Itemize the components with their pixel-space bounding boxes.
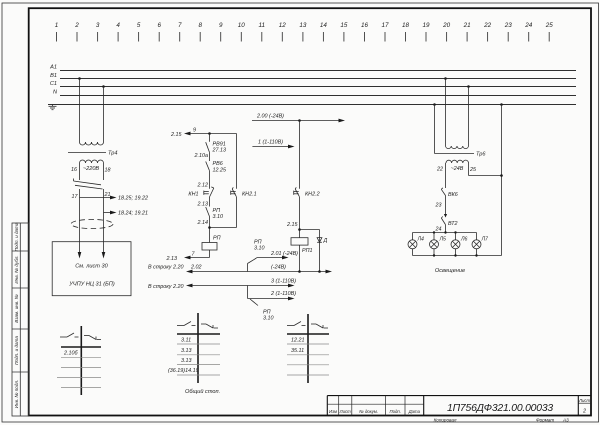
svg-text:Л6: Л6 xyxy=(460,237,468,243)
junction return L6 xyxy=(454,254,456,256)
contact RV6 12.25 xyxy=(206,161,227,174)
svg-text:Подп.: Подп. xyxy=(389,409,400,414)
wire C1 to Tr6 primary right xyxy=(468,87,470,147)
junction node on 2.00 rail xyxy=(298,119,301,122)
svg-text:Общий стоп.: Общий стоп. xyxy=(185,388,220,395)
parallel branch wire KN2.1 upper xyxy=(236,134,238,189)
ladder 2 rung xyxy=(177,374,220,376)
svg-text:(-24В): (-24В) xyxy=(271,265,286,271)
transformer Tr4 secondary winding xyxy=(80,160,104,163)
bus C1 xyxy=(50,81,576,87)
svg-text:16: 16 xyxy=(71,167,77,173)
svg-text:2.10б: 2.10б xyxy=(63,351,78,357)
svg-text:22: 22 xyxy=(483,22,492,29)
svg-text:3.11: 3.11 xyxy=(181,337,191,343)
ladder 1 rungs xyxy=(57,358,101,388)
svg-text:18.25; 19.22: 18.25; 19.22 xyxy=(118,195,148,201)
svg-text:24: 24 xyxy=(435,227,442,233)
svg-text:2.14: 2.14 xyxy=(197,220,209,226)
svg-text:18: 18 xyxy=(105,168,111,174)
ladder 2 rung xyxy=(177,343,220,345)
ground xyxy=(49,104,57,110)
svg-text:2.12: 2.12 xyxy=(197,183,209,189)
junction C1/Tr6 xyxy=(467,85,470,88)
svg-text:9: 9 xyxy=(193,128,196,134)
contact legend make (ladder 1) xyxy=(60,333,79,337)
junction PE/lamp return xyxy=(500,103,503,106)
parallel branch wire lower xyxy=(236,197,238,228)
svg-text:3.10: 3.10 xyxy=(213,214,224,220)
wire RP1 to -24V rail xyxy=(299,245,301,271)
svg-text:Инв. № дубл.: Инв. № дубл. xyxy=(14,255,19,283)
svg-text:Дата: Дата xyxy=(408,409,421,414)
svg-text:10: 10 xyxy=(238,22,246,29)
svg-text:21: 21 xyxy=(463,22,471,29)
svg-text:2.15: 2.15 xyxy=(170,132,182,138)
wire to lamp bus xyxy=(445,225,447,233)
ladder 1 top rung xyxy=(61,346,101,348)
arrow into box right xyxy=(102,242,106,259)
junction return L7 xyxy=(475,254,477,256)
arrow into box left xyxy=(78,242,82,259)
svg-text:35.11: 35.11 xyxy=(291,348,304,354)
svg-text:23: 23 xyxy=(435,203,442,209)
net 3 (1-110V) rail to row 2.20 xyxy=(148,278,296,290)
transformer Tr4 primary winding xyxy=(80,142,104,145)
svg-text:Подп. и дата: Подп. и дата xyxy=(14,336,19,365)
column numbers 1-25 with ticks xyxy=(55,22,553,29)
wire terminal 25 to lamp return riser xyxy=(469,163,502,176)
net 9 entry arrow to 2.15 xyxy=(170,128,237,138)
wire 21 down to connector xyxy=(103,189,105,242)
transformer Tr4 core xyxy=(68,151,117,157)
transformer Tr6 secondary winding xyxy=(446,160,469,163)
svg-text:17: 17 xyxy=(72,194,79,200)
svg-text:Тр6: Тр6 xyxy=(476,152,486,158)
ladder 3 top rung xyxy=(287,333,329,335)
junction B1/Tr6 xyxy=(444,77,447,80)
svg-text:Д: Д xyxy=(323,238,328,244)
wire B1 to Tr6 primary left xyxy=(445,79,447,147)
svg-text:17: 17 xyxy=(381,22,389,29)
junction lamp bus L6 xyxy=(454,231,456,233)
svg-text:3.10: 3.10 xyxy=(254,246,265,252)
push button KN1 xyxy=(188,187,213,197)
svg-text:13: 13 xyxy=(299,22,307,29)
ladder 1 stem xyxy=(80,326,82,395)
relay coil RP xyxy=(202,235,221,250)
wire B1 to Tr4 primary left xyxy=(79,79,81,143)
svg-text:РП1: РП1 xyxy=(302,248,313,254)
svg-text:12.21: 12.21 xyxy=(291,337,305,343)
junction at chain bottom xyxy=(208,226,211,229)
transformer Tr6 primary winding xyxy=(446,146,469,149)
wire 17 down to connector xyxy=(79,189,81,242)
junction C1/Tr4 xyxy=(102,85,105,88)
svg-text:14: 14 xyxy=(320,22,328,29)
contact RV91 27.13 xyxy=(206,142,226,154)
svg-text:РП: РП xyxy=(213,235,221,241)
ladder 2 rung xyxy=(177,364,220,366)
svg-text:Л4: Л4 xyxy=(417,237,425,243)
svg-text:22: 22 xyxy=(436,167,443,173)
svg-text:В1: В1 xyxy=(50,73,57,79)
svg-text:(36.19)14.19: (36.19)14.19 xyxy=(168,368,199,374)
svg-text:2.15: 2.15 xyxy=(286,222,298,228)
svg-text:4: 4 xyxy=(116,22,120,29)
contact KN2.1 xyxy=(231,187,257,197)
switch 2-pole on Tr4 secondary xyxy=(74,179,103,190)
junction node 9/chain xyxy=(208,132,211,135)
bus A1 xyxy=(49,65,576,71)
svg-text:5: 5 xyxy=(137,22,141,29)
svg-text:1 (1-110В): 1 (1-110В) xyxy=(258,140,283,146)
svg-text:УЧПУ НЦ 31 (БП): УЧПУ НЦ 31 (БП) xyxy=(68,282,115,288)
net 2.00 (-24V) rail xyxy=(252,114,345,123)
left margin attribute boxes xyxy=(12,223,29,416)
svg-text:18: 18 xyxy=(402,22,410,29)
svg-text:3: 3 xyxy=(96,22,100,29)
ladder 2 stem xyxy=(197,313,199,383)
svg-text:КН2.2: КН2.2 xyxy=(305,191,320,197)
svg-text:9: 9 xyxy=(219,22,223,29)
svg-text:ВТ2: ВТ2 xyxy=(448,221,458,227)
svg-text:Взам. инв. №: Взам. инв. № xyxy=(14,294,19,322)
junction D/-24V xyxy=(318,270,321,273)
contact legend make (ladder 2) xyxy=(177,322,196,326)
svg-text:20: 20 xyxy=(442,22,451,29)
lamp return bus xyxy=(413,255,502,257)
svg-text:2.13: 2.13 xyxy=(166,256,178,262)
svg-text:2: 2 xyxy=(582,409,586,415)
lamp L4 xyxy=(408,233,424,256)
svg-text:11: 11 xyxy=(259,22,266,29)
svg-text:2.10а: 2.10а xyxy=(194,153,209,159)
svg-text:А1: А1 xyxy=(49,65,57,71)
wire xyxy=(445,196,447,217)
contact RP 3.10 tap to 2.01 xyxy=(248,240,299,272)
svg-text:РВ6: РВ6 xyxy=(213,161,223,167)
svg-text:1: 1 xyxy=(55,22,59,29)
wire to bottom join xyxy=(209,217,211,243)
svg-text:А3: А3 xyxy=(562,417,569,422)
svg-text:См. лист 30: См. лист 30 xyxy=(75,264,108,270)
svg-text:№ докум.: № докум. xyxy=(359,409,378,414)
transformer Tr6 core/screen xyxy=(435,152,487,158)
svg-text:2.01 (-24В): 2.01 (-24В) xyxy=(270,251,298,257)
ladder 3 rung xyxy=(287,343,329,345)
wire RP coil to net 7 xyxy=(166,250,210,262)
contact RP 3.10 xyxy=(206,207,223,220)
junction lamp bus L5 xyxy=(433,231,435,233)
svg-text:15: 15 xyxy=(340,22,348,29)
svg-text:3.13: 3.13 xyxy=(181,358,192,364)
svg-text:25: 25 xyxy=(469,167,477,173)
svg-text:~220В: ~220В xyxy=(83,166,100,172)
junction 25/PE riser xyxy=(500,174,503,177)
svg-text:2.00 (-24В): 2.00 (-24В) xyxy=(256,114,284,120)
relay coil RP1 xyxy=(291,238,313,254)
contact legend break (ladder 1) xyxy=(84,336,101,340)
svg-text:В строку 2.20: В строку 2.20 xyxy=(148,264,183,270)
svg-text:Формат: Формат xyxy=(536,417,554,422)
lamp L6 xyxy=(451,233,468,256)
svg-text:12.25: 12.25 xyxy=(213,168,227,174)
switch VK6 xyxy=(441,188,457,198)
svg-text:КН1: КН1 xyxy=(188,191,198,197)
svg-text:В строку 2.20: В строку 2.20 xyxy=(148,284,183,290)
lamp L5 xyxy=(430,233,447,256)
svg-text:Лист: Лист xyxy=(578,398,590,403)
wire PE to Tr6 screen xyxy=(434,105,436,154)
wire KN2.2 branch from 2.00 rail xyxy=(299,121,301,189)
svg-text:7: 7 xyxy=(178,22,182,29)
svg-text:ВК6: ВК6 xyxy=(448,192,458,198)
svg-text:Инв. № подл.: Инв. № подл. xyxy=(14,380,19,409)
junction RP1/-24V xyxy=(298,270,301,273)
svg-text:Л7: Л7 xyxy=(481,237,490,243)
wire to RP1 xyxy=(299,197,301,238)
bus PE xyxy=(48,104,576,106)
svg-text:12: 12 xyxy=(279,22,287,29)
wire C1 to Tr4 primary right xyxy=(103,87,105,143)
wire tap 18.25 19.22 xyxy=(80,195,148,201)
junction return L5 xyxy=(433,254,435,256)
junction lamp bus/switch xyxy=(444,231,446,233)
svg-text:~24В: ~24В xyxy=(451,166,464,172)
svg-text:19: 19 xyxy=(422,22,430,29)
lamp L7 xyxy=(472,233,489,256)
ladder 2 top rung xyxy=(177,333,220,335)
diode D branch wire xyxy=(319,230,321,272)
junction diode branch top xyxy=(298,228,319,231)
svg-text:23: 23 xyxy=(504,22,513,29)
svg-text:Лист: Лист xyxy=(339,409,351,414)
bottom join of parallel branch xyxy=(210,227,237,229)
UCHPU box xyxy=(52,242,131,296)
svg-text:6: 6 xyxy=(157,22,161,29)
svg-text:2.13: 2.13 xyxy=(197,202,209,208)
svg-text:24: 24 xyxy=(524,22,533,29)
svg-text:Л5: Л5 xyxy=(439,237,447,243)
contact legend make (ladder 3) xyxy=(287,322,306,326)
svg-text:2.02: 2.02 xyxy=(190,265,202,271)
lamp feed bus xyxy=(413,232,477,234)
bus B1 xyxy=(50,73,576,79)
svg-text:КН2.1: КН2.1 xyxy=(242,191,257,197)
svg-text:Копировал: Копировал xyxy=(434,417,457,422)
svg-text:18.24; 19.21: 18.24; 19.21 xyxy=(118,210,148,216)
svg-text:27.13: 27.13 xyxy=(212,148,227,154)
contact legend break (ladder 2) xyxy=(201,324,218,328)
wire xyxy=(209,197,211,207)
svg-text:С1: С1 xyxy=(50,81,57,87)
contact KN2.2 xyxy=(294,187,320,197)
wire PE riser to lamp return bus xyxy=(501,105,503,256)
wire tap 18.24 19.21 xyxy=(104,210,148,216)
svg-text:8: 8 xyxy=(198,22,202,29)
diode D xyxy=(317,238,327,244)
svg-text:3.13: 3.13 xyxy=(181,348,192,354)
svg-text:Изм: Изм xyxy=(329,409,337,414)
net 2 (1-110V) xyxy=(248,291,297,301)
svg-text:Тр4: Тр4 xyxy=(108,151,117,157)
wire Tr4 secondary right xyxy=(103,163,105,180)
wire xyxy=(209,171,211,189)
wire chain upper xyxy=(209,134,211,142)
junction PE/Tr6 screen xyxy=(433,103,436,106)
switch VT2 xyxy=(441,214,457,227)
svg-text:3.10: 3.10 xyxy=(263,316,274,322)
wire terminal 22 down xyxy=(445,163,447,188)
net 1 (1-110V) arrow xyxy=(252,140,294,149)
bus N xyxy=(53,90,576,96)
svg-text:Освещение: Освещение xyxy=(435,268,465,274)
svg-text:Подп. и дата: Подп. и дата xyxy=(14,222,19,251)
svg-text:2: 2 xyxy=(74,22,79,29)
ladder 2 rung xyxy=(177,354,220,356)
connector oval (dashed) xyxy=(71,219,113,228)
title block xyxy=(327,396,591,416)
contact RP 3.10 on net 2 xyxy=(248,286,274,322)
svg-text:16: 16 xyxy=(361,22,369,29)
ladder 3 stem xyxy=(307,314,309,383)
contact legend break (ladder 3) xyxy=(311,324,328,328)
svg-text:3 (1-110В): 3 (1-110В) xyxy=(271,278,296,284)
svg-text:25: 25 xyxy=(545,22,554,29)
junction B1/Tr4 xyxy=(78,77,81,80)
net -24V rail to row 2.20 xyxy=(148,264,332,273)
svg-text:2 (1-110В): 2 (1-110В) xyxy=(270,291,296,297)
ladder 3 rungs xyxy=(287,355,329,375)
wire Tr4 secondary left xyxy=(79,163,81,180)
wire xyxy=(209,152,211,161)
svg-text:1П756ДФ321.00.00033: 1П756ДФ321.00.00033 xyxy=(447,403,553,414)
